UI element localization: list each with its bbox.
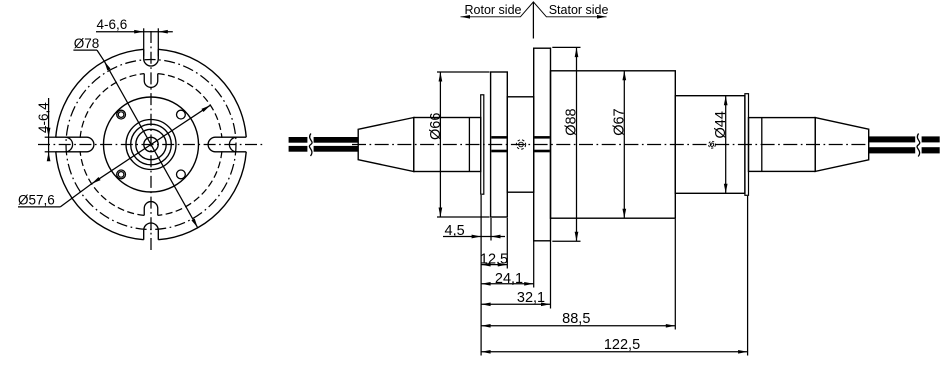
svg-text:4-6,6: 4-6,6	[97, 17, 128, 32]
dimension 122,5	[481, 351, 747, 353]
main centerline	[352, 144, 869, 146]
dimension dia67	[623, 71, 625, 218]
svg-text:24,1: 24,1	[495, 271, 523, 287]
svg-text:Ø78: Ø78	[74, 36, 100, 51]
rotor cylinder	[414, 118, 481, 172]
centerline horizontal	[38, 144, 265, 146]
dimension dia44	[725, 96, 727, 194]
svg-text:Rotor side: Rotor side	[465, 3, 522, 17]
dimension 4-6,6 top slot	[96, 31, 173, 33]
svg-text:Ø88: Ø88	[563, 108, 579, 135]
svg-text:122,5: 122,5	[604, 337, 640, 353]
right cable pair	[869, 136, 940, 142]
end cylinder screw symbol	[709, 141, 716, 148]
4 outer rim slots	[144, 223, 159, 240]
extension line 32,1	[550, 242, 552, 309]
left cable break	[307, 135, 313, 154]
rotor cylinder seam	[468, 118, 470, 172]
dashed hidden circle (4 arcs between inner slots)	[158, 151, 222, 215]
dimension 12,5	[481, 264, 507, 266]
gland seam	[761, 118, 763, 172]
left cone	[358, 118, 414, 172]
svg-text:88,5: 88,5	[562, 311, 590, 327]
dimension diameter 57,6	[92, 105, 211, 184]
dimension 32,1	[481, 303, 550, 305]
svg-text:Ø67: Ø67	[611, 108, 627, 135]
rotor-stator divider symbol	[461, 2, 607, 17]
boss circle	[104, 97, 199, 192]
cable band through flange upper	[491, 136, 506, 139]
right cable break	[915, 135, 921, 155]
dimension 4,5	[443, 236, 505, 238]
extension line flange left face	[480, 195, 482, 356]
chain pitch circle	[66, 60, 236, 230]
svg-text:Ø66: Ø66	[428, 113, 444, 140]
extension line 88,5	[674, 219, 676, 330]
flange outer circle (4 arcs between slots)	[158, 152, 246, 240]
cable band through stator plate upper	[534, 136, 549, 139]
end cap ring	[745, 94, 749, 196]
right cone	[815, 118, 869, 172]
flange plate dia66	[491, 72, 508, 217]
centerline vertical	[150, 31, 152, 252]
extension line 12,5	[506, 218, 508, 269]
4 bolt holes on 45-deg diagonals	[117, 110, 126, 119]
cable gland body	[749, 118, 816, 172]
rotor washer ring	[481, 95, 484, 194]
dimension 88,5	[481, 325, 675, 327]
svg-text:4-6,4: 4-6,4	[36, 102, 51, 133]
cable band through flange lower	[491, 150, 506, 153]
2 inner hidden-disc slots N S	[144, 202, 158, 216]
dimension diameter 78	[104, 61, 197, 228]
svg-text:4,5: 4,5	[445, 223, 465, 239]
stator plate dia88	[534, 48, 551, 241]
left cable pair	[289, 137, 359, 143]
dimension dia66	[437, 71, 490, 73]
dimension dia88	[552, 46, 580, 48]
center bore circles	[126, 120, 176, 170]
svg-text:32,1: 32,1	[517, 290, 545, 306]
hub screw symbol	[516, 140, 525, 149]
dimension 24,1	[481, 283, 534, 285]
left view: flange front view	[18, 17, 265, 252]
svg-text:12,5: 12,5	[480, 252, 508, 268]
dimension 4-6,4 left slot	[48, 98, 50, 156]
body cylinder dia67	[551, 71, 676, 218]
right view: side section	[289, 48, 940, 241]
cable band through stator plate lower	[534, 150, 549, 153]
extension line flange right face	[490, 218, 492, 241]
end cylinder dia44	[675, 96, 745, 194]
svg-text:Ø44: Ø44	[713, 111, 729, 138]
svg-text:Ø57,6: Ø57,6	[18, 192, 55, 207]
svg-text:Stator side: Stator side	[549, 3, 609, 17]
extension line 122,5	[747, 196, 749, 356]
center hub	[507, 97, 533, 192]
extension line 24,1	[533, 242, 535, 288]
